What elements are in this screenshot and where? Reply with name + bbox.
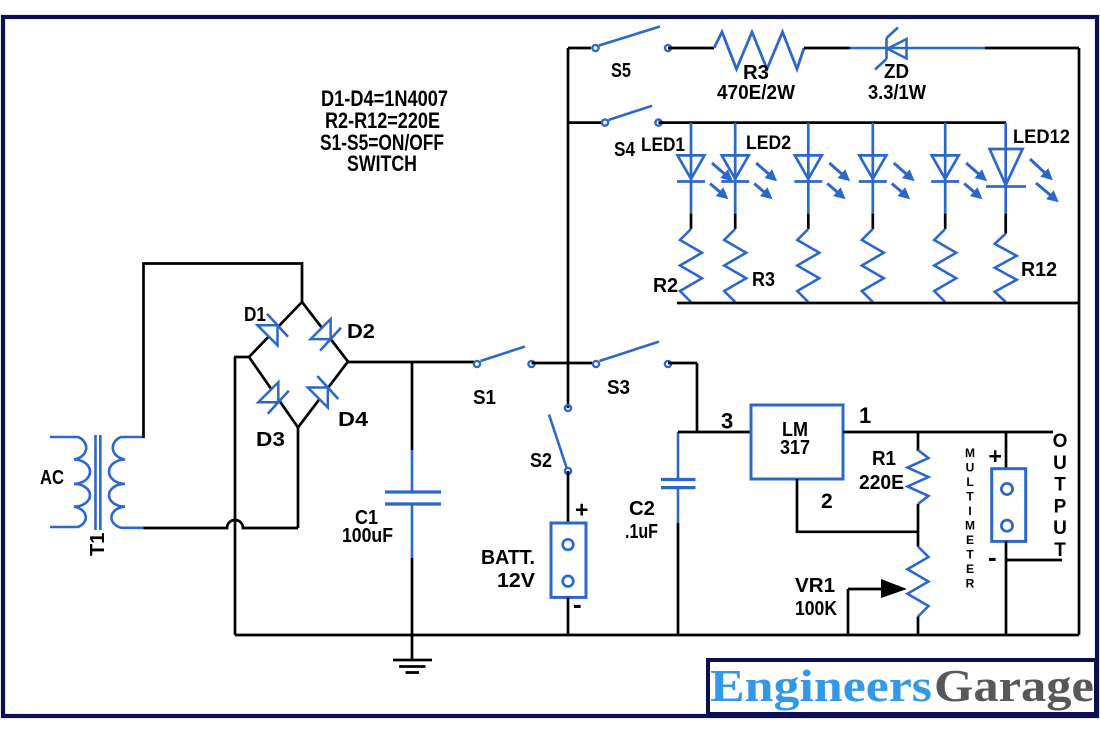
svg-text:T: T [1054, 475, 1066, 496]
svg-text:R12: R12 [1021, 259, 1057, 281]
svg-text:+: + [575, 497, 588, 523]
svg-text:R2: R2 [653, 275, 678, 297]
svg-text:D3: D3 [256, 429, 285, 451]
svg-text:470E/2W: 470E/2W [717, 82, 795, 104]
svg-text:LED1: LED1 [641, 135, 685, 156]
svg-text:E: E [966, 533, 974, 547]
svg-text:C2: C2 [629, 498, 655, 520]
svg-text:S3: S3 [607, 377, 630, 399]
svg-text:ZD: ZD [884, 61, 909, 83]
svg-text:AC: AC [40, 467, 64, 489]
svg-text:S5: S5 [611, 60, 631, 82]
svg-text:317: 317 [780, 437, 810, 459]
svg-text:.1uF: .1uF [625, 521, 658, 543]
svg-text:U: U [966, 461, 975, 475]
svg-text:S4: S4 [614, 139, 636, 161]
svg-text:LED12: LED12 [1013, 127, 1070, 148]
svg-text:SWITCH: SWITCH [347, 151, 417, 176]
svg-text:R3: R3 [743, 62, 769, 84]
svg-text:P: P [1054, 496, 1067, 517]
svg-text:3: 3 [721, 409, 733, 434]
svg-text:O: O [1053, 431, 1068, 452]
svg-text:12V: 12V [497, 570, 536, 592]
svg-text:S2: S2 [530, 450, 552, 472]
svg-text:T: T [966, 490, 974, 504]
svg-text:S1: S1 [473, 387, 496, 409]
svg-text:U: U [1053, 518, 1067, 539]
svg-text:T1: T1 [87, 533, 109, 556]
svg-text:D2: D2 [347, 321, 375, 343]
svg-text:U: U [1053, 453, 1067, 474]
svg-text:2: 2 [821, 490, 833, 513]
svg-text:LED2: LED2 [746, 133, 791, 154]
svg-text:M: M [965, 519, 975, 533]
svg-text:L: L [966, 475, 973, 489]
svg-text:D4: D4 [338, 409, 369, 431]
svg-text:R1: R1 [872, 448, 896, 470]
svg-text:+: + [989, 443, 1002, 469]
svg-text:BATT.: BATT. [481, 547, 535, 569]
svg-text:100uF: 100uF [342, 525, 393, 547]
svg-text:E: E [966, 562, 974, 576]
svg-text:1: 1 [859, 403, 871, 428]
svg-text:Engineers: Engineers [710, 661, 932, 711]
svg-text:-: - [988, 542, 997, 572]
svg-text:100K: 100K [795, 598, 837, 620]
svg-text:T: T [966, 548, 974, 562]
svg-text:T: T [1054, 540, 1066, 561]
svg-text:-: - [573, 589, 582, 619]
svg-text:Garage: Garage [934, 661, 1094, 711]
svg-text:VR1: VR1 [795, 575, 835, 597]
svg-text:D1: D1 [244, 304, 266, 326]
svg-text:R: R [966, 577, 975, 591]
svg-text:220E: 220E [859, 472, 904, 494]
svg-text:I: I [968, 504, 971, 518]
svg-text:3.3/1W: 3.3/1W [868, 82, 926, 104]
svg-text:R3: R3 [752, 269, 775, 291]
svg-text:M: M [965, 446, 975, 460]
